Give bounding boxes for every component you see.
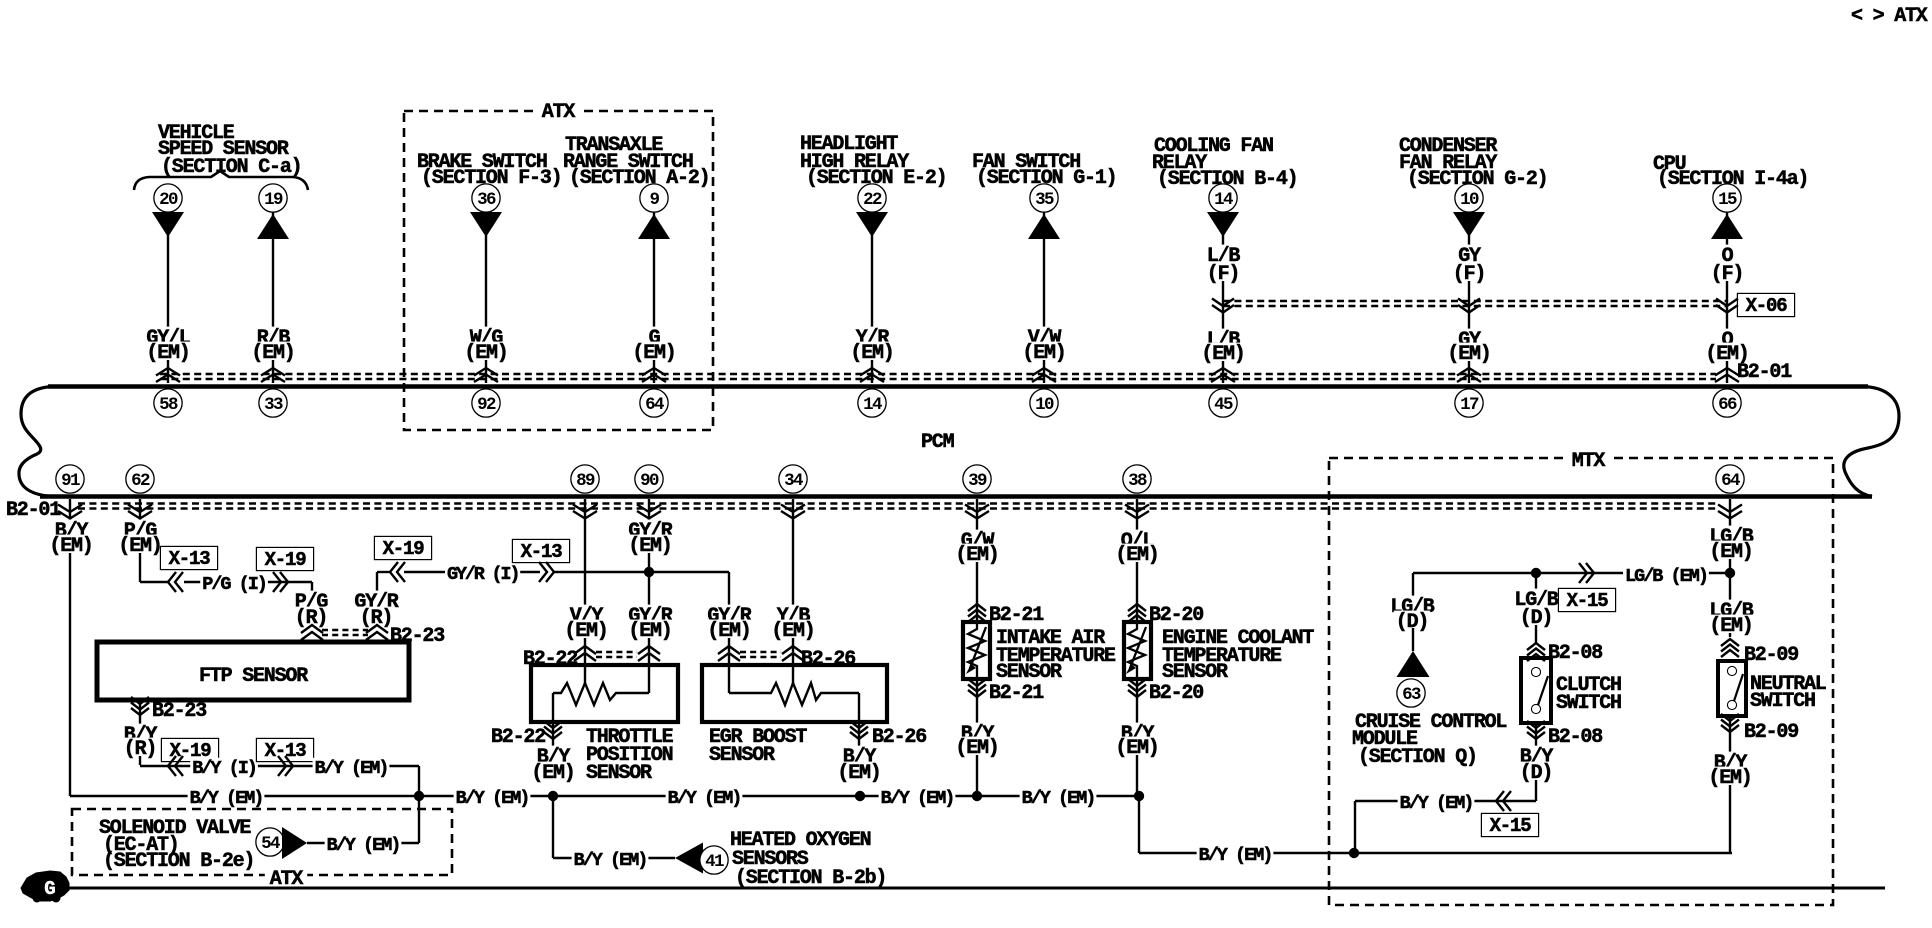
- label ATX (top box): [537, 98, 579, 122]
- svg-text:63: 63: [1402, 685, 1421, 705]
- svg-text:B/Y (EM): B/Y (EM): [456, 788, 529, 809]
- arrow (input) pin 9: [638, 214, 670, 239]
- wire pin 62 P/G down: [139, 499, 141, 582]
- label B/Y (EM) #1: [188, 788, 265, 805]
- svg-text:(EM): (EM): [146, 342, 189, 365]
- wire to pin 19 up: [272, 212, 274, 383]
- svg-text:B/Y (EM): B/Y (EM): [327, 835, 400, 856]
- svg-text:B2-21: B2-21: [989, 682, 1044, 705]
- connector chevron B2-26 top left: [718, 646, 740, 654]
- bus2 pin circle 34: [780, 466, 807, 493]
- wire pin 90 GY/R down: [648, 499, 650, 693]
- wire P/G jog to X-13: [140, 581, 168, 583]
- svg-text:< > ATX: < > ATX: [1851, 5, 1928, 28]
- arrow cruise control module: [1397, 651, 1430, 677]
- svg-text:15: 15: [1718, 190, 1737, 210]
- svg-text:(SECTION B-2b): (SECTION B-2b): [735, 867, 886, 890]
- connector chevron B2-09 bottom: [1721, 714, 1739, 721]
- wire neutral below box: [1729, 716, 1731, 853]
- svg-text:B/Y (EM): B/Y (EM): [190, 788, 263, 809]
- bus2 pin circle 64: [1717, 466, 1744, 493]
- svg-text:LG/B (EM): LG/B (EM): [1625, 566, 1707, 587]
- svg-text:B/Y (EM): B/Y (EM): [1199, 845, 1272, 866]
- wire GY/R (I): [404, 571, 540, 573]
- wire B/Y (I): [140, 765, 288, 767]
- chevron right B/Y (I): [285, 756, 293, 776]
- svg-text:(EM): (EM): [850, 342, 893, 365]
- clutch switch box: [1521, 658, 1551, 723]
- connector chevron B2-09 top: [1721, 639, 1739, 646]
- wire EGR output: [858, 693, 860, 766]
- svg-text:45: 45: [1214, 395, 1233, 415]
- wire coolant corner down: [1138, 796, 1140, 853]
- dashed box MTX: [1329, 458, 1833, 905]
- junction dot clutch branch: [1531, 568, 1541, 578]
- svg-text:SENSOR: SENSOR: [709, 744, 775, 767]
- arrow (input) pin 19: [257, 214, 289, 239]
- svg-text:19: 19: [264, 190, 283, 210]
- svg-text:(EM): (EM): [1705, 343, 1748, 366]
- svg-text:(EM): (EM): [955, 544, 998, 567]
- bus pin circle 33: [260, 390, 287, 417]
- pin circle 19: [260, 185, 287, 212]
- dashed link B2-23: [322, 629, 368, 631]
- connector chevron B2-08 bottom: [1527, 721, 1545, 728]
- svg-text:(R): (R): [124, 738, 156, 761]
- bus left S-curve: [19, 387, 52, 497]
- wire colour label LG/B (D) clutch: [1512, 589, 1559, 607]
- bus 2 dashed pair: [78, 502, 1716, 504]
- wire colour label W/G (EM): [468, 327, 504, 345]
- bus pin circle 66: [1714, 390, 1741, 417]
- chevron left P/G (I): [168, 572, 176, 592]
- svg-text:G: G: [44, 878, 55, 900]
- svg-text:B2-20: B2-20: [1149, 604, 1203, 627]
- wire colour label L/B (F): [1205, 245, 1241, 263]
- svg-text:36: 36: [477, 190, 496, 210]
- connector X-19 box b: [375, 537, 431, 559]
- connector chevron B2-20 bottom: [1128, 679, 1146, 686]
- wire colour label GY/L (EM): [144, 327, 191, 345]
- chevron left GY/R (I): [390, 562, 398, 582]
- svg-text:B/Y (EM): B/Y (EM): [574, 850, 647, 871]
- dashed box solenoid ATX: [72, 809, 452, 875]
- connector chevron B2-23 bottom: [131, 697, 149, 704]
- svg-text:(EM): (EM): [955, 737, 998, 760]
- connector chevron B2-22 top: [574, 646, 596, 654]
- bus2 connector chevron pin 39: [965, 505, 989, 513]
- wire solenoid B/Y (EM): [307, 842, 419, 844]
- connector X-19 box c: [162, 739, 218, 761]
- label B/Y (EM) clutch: [1398, 793, 1475, 810]
- svg-text:34: 34: [784, 471, 803, 491]
- dashed link B2-26: [740, 651, 781, 653]
- svg-text:(F): (F): [1207, 263, 1239, 286]
- junction dot throttle: [548, 791, 558, 801]
- svg-text:B/Y (EM): B/Y (EM): [1400, 793, 1473, 814]
- svg-text:20: 20: [159, 190, 178, 210]
- bus2 pin circle 38: [1124, 466, 1151, 493]
- bus connector chevron pin 58: [156, 368, 180, 376]
- neutral switch box: [1718, 661, 1746, 716]
- pin circle 41: [701, 847, 728, 874]
- bus2 pin circle 91: [57, 466, 84, 493]
- label P/G (I): [200, 574, 268, 591]
- svg-text:(SECTION A-2): (SECTION A-2): [569, 167, 709, 190]
- label B/Y (EM) #5: [1020, 788, 1097, 805]
- svg-text:B/Y (EM): B/Y (EM): [315, 758, 388, 779]
- wire colour label O (F): [1720, 245, 1735, 263]
- svg-text:SENSOR: SENSOR: [996, 661, 1062, 684]
- wire colour label P/G (R): [293, 591, 329, 609]
- svg-text:(EM): (EM): [531, 762, 574, 785]
- junction dot B/Y: [414, 791, 424, 801]
- svg-text:B2-23: B2-23: [390, 625, 444, 648]
- junction corner coolant: [1134, 791, 1144, 801]
- svg-text:B2-09: B2-09: [1744, 644, 1798, 667]
- svg-text:B2-21: B2-21: [989, 604, 1044, 627]
- arrow (output) pin 20: [152, 212, 184, 237]
- wire colour label V/W (EM): [1026, 327, 1062, 345]
- lower B/Y (EM) horizontal wire: [1139, 852, 1732, 855]
- wire colour label B/Y (EM) throttle: [535, 746, 571, 764]
- label B/Y (EM) #4: [879, 788, 956, 805]
- svg-text:B/Y (EM): B/Y (EM): [1022, 788, 1095, 809]
- label LG/B (EM) branch: [1623, 566, 1709, 583]
- main B/Y (EM) horizontal wire: [70, 795, 1139, 798]
- wire colour label LG/B (EM) pin64: [1707, 526, 1754, 544]
- brace over vehicle speed sensor pins: [134, 171, 308, 190]
- connector chevron B2-23 right: [366, 625, 388, 633]
- svg-text:B2-01: B2-01: [6, 499, 61, 522]
- coolant temp sensor box: [1124, 622, 1151, 679]
- wire pin 64 LG/B down: [1729, 499, 1731, 637]
- bus connector chevron pin 33: [261, 368, 285, 376]
- resistor zigzag throttle: [553, 683, 649, 705]
- svg-text:39: 39: [968, 471, 987, 491]
- label B/Y (EM) #2: [454, 788, 531, 805]
- connector X-06 box: [1738, 294, 1794, 316]
- wire coolant output: [1136, 679, 1138, 796]
- label B/Y (EM) lower: [1197, 845, 1274, 862]
- svg-text:X-13: X-13: [169, 548, 211, 570]
- wire colour label GY/R (EM) lower: [626, 605, 673, 623]
- svg-text:92: 92: [477, 395, 496, 415]
- wire colour label Y/B (EM): [775, 605, 811, 623]
- arrow (output) pin 22: [856, 212, 888, 237]
- svg-text:89: 89: [576, 471, 595, 491]
- wire GY/R corner to EGR: [728, 572, 730, 693]
- wire FTP output: [139, 700, 141, 765]
- bus2 pin circle 39: [964, 466, 991, 493]
- X-06 dashed branch pair: [1223, 300, 1727, 302]
- svg-text:SWITCH: SWITCH: [1556, 692, 1621, 715]
- svg-text:(SECTION C-a): (SECTION C-a): [161, 156, 301, 179]
- svg-text:(EM): (EM): [49, 535, 92, 558]
- junction dot EGR: [855, 791, 865, 801]
- wire colour label GY/R (EM) upper: [626, 520, 673, 538]
- bus B2-01 top dashed pair: [160, 373, 1716, 375]
- svg-text:9: 9: [650, 190, 660, 210]
- svg-text:14: 14: [863, 395, 882, 415]
- wire colour label O/L (EM): [1119, 530, 1155, 548]
- bus connector chevron pin 10: [1032, 368, 1056, 376]
- svg-text:B2-26: B2-26: [801, 648, 855, 671]
- wire B/Y (EM) to corner: [288, 765, 419, 767]
- bus2 connector chevron pin 89: [573, 505, 597, 513]
- svg-text:B2-23: B2-23: [152, 700, 206, 723]
- arrow solenoid valve: [282, 827, 307, 859]
- svg-text:(SECTION B-2e): (SECTION B-2e): [103, 850, 254, 873]
- svg-text:(EM): (EM): [1447, 343, 1490, 366]
- wire clutch below box: [1535, 723, 1537, 801]
- junction dot GY/R: [644, 567, 654, 577]
- neutral switch contacts: [1728, 667, 1736, 675]
- EGR boost sensor box: [702, 665, 887, 722]
- connector chevron B2-26 top right: [782, 646, 804, 654]
- svg-text:17: 17: [1460, 395, 1479, 415]
- wire colour label Y/R (EM): [854, 327, 890, 345]
- bus2 pin circle 62: [127, 466, 154, 493]
- wire colour label V/Y (EM): [568, 605, 604, 623]
- connector chevron B2-21 top: [968, 604, 986, 611]
- wire colour label O (EM): [1720, 329, 1735, 347]
- svg-text:PCM: PCM: [921, 431, 955, 454]
- svg-text:38: 38: [1128, 471, 1147, 491]
- label B/Y (EM) oxygen: [572, 850, 649, 867]
- bus pin circle 10: [1031, 390, 1058, 417]
- ground line: [62, 887, 1885, 890]
- svg-text:(SECTION Q): (SECTION Q): [1358, 746, 1477, 769]
- label solenoid B/Y (EM): [325, 835, 402, 852]
- svg-text:MTX: MTX: [1572, 450, 1606, 473]
- pin circle 54: [257, 829, 284, 856]
- wire pin 39 G/W down: [976, 499, 978, 622]
- svg-text:(EM): (EM): [1022, 342, 1065, 365]
- connector X-06 chevron at 1223: [1212, 299, 1234, 307]
- bus connector chevron pin 64: [642, 368, 666, 376]
- wire colour label GY/R (EM) EGR: [705, 605, 752, 623]
- wire colour label G/W (EM): [959, 530, 995, 548]
- wire colour label GY/R (R): [352, 591, 399, 609]
- thermistor symbol intake: [968, 624, 985, 677]
- pin circle 9: [641, 185, 668, 212]
- svg-text:X-15: X-15: [1567, 590, 1609, 612]
- svg-text:14: 14: [1214, 190, 1233, 210]
- wire clutch LG/B down: [1535, 573, 1537, 643]
- wire from pin 36 down: [485, 210, 487, 383]
- LG/B (EM) branch wire: [1413, 572, 1730, 574]
- bus2 connector chevron pin 64: [1718, 505, 1742, 513]
- wire from pin 20 down: [167, 210, 169, 383]
- label ATX (solenoid box): [265, 865, 307, 889]
- svg-text:22: 22: [863, 190, 882, 210]
- connector chevron B2-22 top right: [638, 646, 660, 654]
- svg-text:(EM): (EM): [251, 342, 294, 365]
- bus connector chevron pin 17: [1457, 368, 1481, 376]
- pin circle 20: [155, 185, 182, 212]
- svg-text:(EM): (EM): [837, 762, 880, 785]
- wire branch to heated oxygen: [552, 796, 554, 858]
- svg-text:10: 10: [1460, 190, 1479, 210]
- chevron left clutch B/Y: [1496, 791, 1504, 811]
- connector X-15 box a: [1559, 589, 1615, 611]
- svg-text:B2-08: B2-08: [1548, 726, 1602, 749]
- chevron right LG/B (EM): [1586, 563, 1594, 583]
- wire colour label B/Y (EM) EGR: [841, 746, 877, 764]
- bus2 connector chevron pin 34: [781, 505, 805, 513]
- chevron left B/Y (I): [168, 756, 176, 776]
- bus2 connector chevron pin 91: [58, 505, 82, 513]
- svg-text:(EM): (EM): [707, 620, 750, 643]
- bus pin circle 58: [155, 390, 182, 417]
- wire GY/R (R) corner: [376, 572, 378, 624]
- dashed box ATX (top): [404, 111, 713, 430]
- wire cruise to arrow: [1412, 628, 1414, 651]
- pin circle 14: [1210, 185, 1237, 212]
- bus connector chevron pin 45: [1211, 368, 1235, 376]
- junction dot at pin64 wire: [1725, 568, 1735, 578]
- wire cruise corner down: [1412, 573, 1414, 598]
- bus pin circle 64: [641, 390, 668, 417]
- svg-text:(D): (D): [1520, 607, 1552, 630]
- bus2 pin circle 90: [636, 466, 663, 493]
- wire to pin 35 up: [1043, 212, 1045, 383]
- wire colour label B/Y (EM) neutral: [1712, 752, 1748, 770]
- bus connector chevron pin 14: [860, 368, 884, 376]
- svg-text:(EM): (EM): [1709, 615, 1752, 638]
- svg-text:(EM): (EM): [1115, 544, 1158, 567]
- dashed link B2-22: [596, 651, 637, 653]
- label GY/R (I): [445, 564, 520, 581]
- svg-text:66: 66: [1718, 395, 1737, 415]
- svg-text:SENSOR: SENSOR: [1162, 661, 1228, 684]
- wire colour label B/Y (EM) intake: [959, 723, 995, 741]
- svg-text:(EM): (EM): [464, 342, 507, 365]
- bus pin circle 45: [1210, 390, 1237, 417]
- svg-text:(EM): (EM): [632, 342, 675, 365]
- svg-text:B/Y (EM): B/Y (EM): [881, 788, 954, 809]
- svg-text:58: 58: [159, 395, 178, 415]
- svg-text:35: 35: [1035, 190, 1054, 210]
- svg-text:91: 91: [61, 471, 80, 491]
- svg-text:(EM): (EM): [1115, 737, 1158, 760]
- FTP sensor box: [97, 642, 409, 700]
- connector chevron B2-21 bottom: [968, 679, 986, 686]
- connector X-13 box c: [257, 739, 313, 761]
- clutch switch contacts: [1532, 668, 1540, 676]
- svg-text:(EM): (EM): [118, 535, 161, 558]
- wire pin 89 V/Y down: [584, 499, 586, 665]
- svg-text:X-06: X-06: [1746, 295, 1788, 317]
- wire EGR pin34 into box: [792, 665, 794, 683]
- wire colour label GY (EM): [1456, 329, 1482, 347]
- wire colour label B/Y (EM) pin91: [53, 520, 89, 538]
- pin circle 36: [473, 185, 500, 212]
- bus2 connector chevron pin 62: [128, 505, 152, 513]
- svg-text:(EM): (EM): [1708, 767, 1751, 790]
- wire GY/R (I) to junction: [554, 571, 729, 573]
- bus2 connector chevron pin 90: [637, 505, 661, 513]
- svg-text:(EM): (EM): [628, 535, 671, 558]
- wire P/G (R) corner: [288, 581, 312, 583]
- connector chevron B2-22 bottom: [544, 721, 562, 728]
- pin circle 22: [859, 185, 886, 212]
- wire clutch to corner: [1355, 800, 1536, 802]
- svg-text:90: 90: [640, 471, 659, 491]
- svg-text:41: 41: [705, 852, 724, 872]
- svg-text:(EM): (EM): [1709, 541, 1752, 564]
- svg-text:B2-09: B2-09: [1744, 721, 1798, 744]
- wire colour label LG/B (EM) neutral: [1707, 600, 1754, 618]
- svg-text:X-13: X-13: [265, 740, 307, 762]
- pin circle 10: [1456, 185, 1483, 212]
- label B/Y (I): [190, 758, 258, 775]
- svg-text:X-19: X-19: [383, 538, 425, 560]
- svg-text:(EM): (EM): [1201, 343, 1244, 366]
- pin circle 15: [1714, 185, 1741, 212]
- label B/Y (EM) #3: [666, 788, 743, 805]
- bus2 connector chevron pin 38: [1125, 505, 1149, 513]
- label B/Y (EM) upper: [313, 758, 390, 775]
- arrow (output) pin 14: [1207, 212, 1239, 237]
- bus right S-curve: [1844, 387, 1899, 497]
- thermistor symbol coolant: [1128, 624, 1145, 677]
- wire colour label B/Y (EM) coolant: [1119, 723, 1155, 741]
- pin circle 35: [1031, 185, 1058, 212]
- throttle sensor box: [531, 665, 678, 722]
- wire from pin 14 down: [1222, 210, 1224, 383]
- label B2-01 right: [1735, 361, 1793, 379]
- bus B2-01 top solid line: [48, 384, 1868, 389]
- bus pin circle 14: [859, 390, 886, 417]
- connector chevron B2-23 left: [301, 625, 323, 633]
- svg-text:10: 10: [1035, 395, 1054, 415]
- svg-text:64: 64: [1721, 471, 1740, 491]
- connector X-13 box b: [513, 540, 569, 562]
- arrow (input) pin 35: [1028, 214, 1060, 239]
- svg-text:X-19: X-19: [265, 549, 307, 571]
- bus pin circle 17: [1456, 390, 1483, 417]
- wire pin 38 O/L down: [1136, 499, 1138, 622]
- svg-text:B/Y (I): B/Y (I): [192, 758, 256, 779]
- bus 2 solid line (PCM bottom): [40, 494, 1872, 499]
- svg-text:ATX: ATX: [542, 101, 576, 124]
- svg-text:(D): (D): [1520, 762, 1552, 785]
- svg-text:B2-08: B2-08: [1548, 642, 1602, 665]
- svg-text:62: 62: [131, 471, 150, 491]
- wire pin 34 Y/B down: [792, 499, 794, 665]
- wire to pin 15 up: [1726, 212, 1728, 383]
- connector X-19 box a: [257, 548, 313, 570]
- intake air temp sensor box: [963, 622, 990, 679]
- svg-text:GY/R (I): GY/R (I): [447, 564, 518, 585]
- wire colour label GY (F): [1456, 245, 1482, 263]
- wire colour label LG/B (D) cruise: [1388, 596, 1435, 614]
- svg-text:FTP SENSOR: FTP SENSOR: [199, 665, 308, 688]
- wire colour label B/Y (R): [122, 724, 158, 742]
- connector chevron B2-20 top: [1128, 604, 1146, 611]
- svg-text:(F): (F): [1711, 263, 1743, 286]
- svg-text:(EM): (EM): [628, 620, 671, 643]
- wire pin 91 B/Y down: [69, 499, 71, 796]
- arrow (output) pin 36: [470, 212, 502, 237]
- junction dot intake: [972, 791, 982, 801]
- connector X-15 box b: [1482, 814, 1538, 836]
- wire colour label P/G (EM): [122, 520, 158, 538]
- connector chevron B2-08 top: [1527, 643, 1545, 650]
- svg-text:X-13: X-13: [521, 541, 563, 563]
